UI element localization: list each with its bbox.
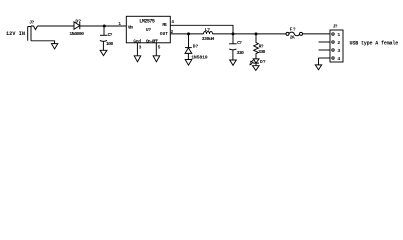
pin 1 bbox=[332, 33, 334, 35]
svg-text:4: 4 bbox=[171, 20, 174, 25]
junction catch diode node bbox=[187, 32, 190, 35]
wire LED to ground bbox=[255, 63, 257, 66]
wire jack ground bbox=[31, 41, 55, 44]
svg-text:U?: U? bbox=[146, 27, 151, 33]
ground (USB shell) bbox=[315, 65, 321, 70]
svg-text:J?: J? bbox=[29, 19, 34, 25]
svg-text:C?: C? bbox=[108, 32, 113, 38]
wire jack to diode D? bbox=[38, 25, 75, 27]
wire inductor to fuse bbox=[213, 33, 287, 35]
ground (input cap) bbox=[100, 50, 107, 55]
svg-text:L?: L? bbox=[205, 27, 210, 33]
svg-text:USB type A female: USB type A female bbox=[350, 41, 399, 47]
svg-text:D?: D? bbox=[75, 19, 81, 25]
svg-text:J?: J? bbox=[333, 23, 338, 29]
wire IC pin 1 stub bbox=[119, 25, 127, 27]
pin 2 stub bbox=[319, 41, 331, 43]
ground (jack) bbox=[51, 44, 57, 49]
wire fuse to USB connector pin 1 bbox=[303, 33, 331, 35]
svg-text:2A: 2A bbox=[290, 34, 295, 40]
svg-text:330uH: 330uH bbox=[202, 36, 215, 42]
svg-text:3: 3 bbox=[139, 46, 142, 51]
svg-text:330: 330 bbox=[237, 50, 245, 56]
wire USB pin4 to ground bbox=[318, 58, 320, 65]
svg-text:R?: R? bbox=[259, 44, 264, 50]
svg-text:100: 100 bbox=[106, 41, 114, 47]
svg-text:4: 4 bbox=[337, 56, 340, 62]
capacitor C? 330uF output bbox=[229, 34, 244, 60]
junction LED branch node bbox=[255, 32, 258, 35]
svg-text:D?: D? bbox=[193, 43, 199, 49]
svg-text:1N5819: 1N5819 bbox=[191, 54, 208, 60]
wire IC on-off pin 5 bbox=[155, 43, 157, 56]
svg-text:Vin: Vin bbox=[128, 26, 134, 31]
ground (output cap) bbox=[230, 60, 237, 65]
svg-text:1N4000: 1N4000 bbox=[69, 31, 84, 37]
svg-text:LM2575: LM2575 bbox=[139, 19, 155, 25]
diode D? 1N4000 bbox=[69, 19, 84, 38]
connector J? USB type A female bbox=[319, 23, 344, 62]
ground (IC pin 3) bbox=[134, 56, 141, 62]
wire OUT to inductor bbox=[170, 33, 203, 35]
svg-text:5: 5 bbox=[158, 46, 161, 51]
ground (IC pin 5) bbox=[153, 56, 160, 62]
inductor L? 330uH bbox=[202, 27, 215, 42]
junction input cap node bbox=[103, 25, 106, 28]
ground (LED) bbox=[253, 66, 260, 71]
connector J? (12V input barrel jack) bbox=[28, 19, 38, 40]
svg-text:2: 2 bbox=[337, 40, 340, 46]
wire diode to IC Vin bbox=[80, 25, 127, 27]
junction FB/output cap node bbox=[232, 32, 235, 35]
resistor R? 330 bbox=[254, 34, 266, 59]
fuse F? 2A bbox=[286, 26, 303, 40]
wire FB feedback bbox=[170, 25, 233, 34]
svg-text:C?: C? bbox=[237, 40, 242, 46]
svg-text:3: 3 bbox=[337, 48, 340, 54]
wire IC gnd pin 3 bbox=[136, 43, 138, 56]
LED D? bbox=[250, 59, 266, 65]
ground (catch diode) bbox=[185, 60, 192, 66]
svg-text:1: 1 bbox=[337, 32, 340, 38]
svg-text:330: 330 bbox=[258, 49, 266, 55]
capacitor C? 100uF input bbox=[100, 26, 114, 50]
diode D? 1N5819 catch bbox=[185, 34, 208, 61]
IC U? LM2575 regulator box bbox=[126, 16, 170, 44]
svg-text:12V IN: 12V IN bbox=[6, 31, 25, 37]
svg-text:F?: F? bbox=[290, 26, 296, 32]
pin 3 stub bbox=[319, 49, 331, 51]
pin 4 bbox=[319, 57, 331, 59]
svg-text:FB: FB bbox=[162, 23, 167, 28]
svg-text:D?: D? bbox=[260, 59, 266, 65]
svg-text:OUT: OUT bbox=[160, 32, 168, 37]
